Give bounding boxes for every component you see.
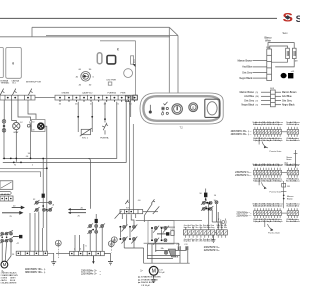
panel icon star circle [161, 107, 165, 111]
bus 263 [144, 262, 190, 264]
svg-text:M: M [3, 262, 7, 267]
svg-text:Wht: Wht [224, 226, 228, 229]
pressure switch body [0, 181, 13, 190]
connector F02 [267, 49, 272, 81]
wire panel to J6 [128, 102, 130, 210]
contact KC4 [209, 207, 212, 210]
puerta gate arrow X2 [259, 178, 265, 188]
svg-text:NTC 1: NTC 1 [82, 138, 89, 140]
svg-text:Brown: Brown [278, 123, 283, 126]
relay coil KC dark [204, 193, 207, 198]
big slash right of NT [153, 206, 160, 214]
board outline right edge [135, 41, 137, 95]
strip2 riser column [295, 150, 297, 168]
svg-text:Gris Grey: Gris Grey [242, 71, 253, 74]
svg-text:Blk: Blk [192, 227, 195, 229]
extra center horizontals [147, 256, 180, 259]
earth circle right [108, 241, 114, 247]
wire lamp1 drop [3, 100, 5, 120]
labels 2 4 6 [74, 246, 88, 251]
F03 wires right [275, 91, 281, 93]
wire pin24 stub [130, 102, 132, 117]
contact KL5 [95, 230, 98, 233]
heater resistors R1 R2 [268, 43, 296, 67]
panel knob big [172, 104, 182, 114]
svg-text:Brn: Brn [196, 240, 199, 243]
puerta gate arrow X1 [259, 137, 268, 148]
connector strip J5b [70, 251, 105, 255]
wire motor ground [153, 276, 155, 280]
F03 labels right [282, 91, 297, 107]
svg-text:Blanco: Blanco [295, 221, 300, 223]
svg-text:Negro Black: Negro Black [282, 104, 295, 107]
earth circle center [111, 237, 117, 243]
connector strip J1 left segment [0, 95, 35, 100]
board outline top edge [100, 40, 136, 42]
svg-text:LED PWR: LED PWR [107, 79, 117, 81]
F02 wire labels [238, 59, 253, 80]
wire top bus L1 [0, 17, 277, 19]
down arrow under strip2L [92, 256, 94, 262]
contact KC1 [202, 201, 205, 204]
connector strip J6 [120, 210, 143, 214]
dial center dot [83, 75, 86, 78]
wire panel stub [132, 124, 134, 210]
legend color codes left [1, 272, 19, 285]
door lock actuator [272, 75, 281, 77]
svg-text:(M): (M) [256, 96, 259, 98]
svg-text:PWR: PWR [121, 92, 126, 94]
XC ticks and labels [185, 227, 225, 238]
svg-text:(5): (5) [256, 92, 259, 94]
aux box C1 [171, 231, 174, 236]
svg-text:PUERTA: PUERTA [100, 137, 109, 140]
board strip header labels [62, 91, 126, 94]
svg-text:▶ 49 AZUL BLUE: ▶ 49 AZUL BLUE [139, 281, 155, 284]
svg-text:White: White [295, 204, 299, 207]
svg-text:Blk: Blk [217, 227, 220, 229]
component flag right edge [132, 64, 135, 67]
connector strip X2 [254, 170, 299, 175]
arrow latch 47 [13, 236, 19, 238]
motor M1 [1, 261, 8, 268]
contact KP2 [49, 201, 52, 204]
svg-text:b1 b2 10: b1 b2 10 [1, 194, 10, 196]
svg-text:Marron Brown: Marron Brown [282, 91, 297, 94]
arrow 25b [71, 212, 87, 214]
junction dot NTC right [91, 116, 93, 118]
wire L2 corner diagonal [169, 27, 178, 35]
svg-text:GPW: GPW [13, 132, 18, 134]
wire door switch drop [104, 102, 106, 123]
control panel T.2 outer [140, 93, 223, 124]
svg-text:Brn: Brn [196, 226, 199, 229]
ground symbol left [51, 262, 56, 265]
svg-text:INTERRUPTOR: INTERRUPTOR [26, 82, 41, 84]
wire lampbox right riser [45, 126, 47, 159]
contact KC2 [209, 201, 212, 204]
connector strip J2 right segment [55, 95, 137, 100]
switch S2 slash [12, 89, 15, 95]
relay cluster center right box [148, 221, 174, 244]
control panel inner bezel [143, 96, 219, 121]
panel display window [205, 99, 220, 117]
LED square [108, 82, 112, 85]
switch S3 slash [28, 89, 31, 95]
pressure connector b1 b2 10 [0, 196, 13, 201]
lamp box enclosure [32, 120, 46, 132]
wire bus drop x90 [88, 158, 90, 208]
svg-text:Brown: Brown [278, 164, 283, 167]
wires cluster to XC [205, 197, 207, 201]
wire lampbox drop [28, 100, 36, 119]
motor relay contact row 1 [1, 232, 4, 235]
wire lamp2 drop [12, 100, 17, 122]
svg-text:ORDEN: ORDEN [62, 92, 70, 94]
connector F01 small rect [131, 56, 134, 64]
capacitor C1 plates [178, 246, 188, 250]
svg-text:Negro: Negro [278, 180, 283, 183]
svg-text:C.8 16 µF: C.8 16 µF [141, 285, 151, 287]
wire L2 riser [31, 27, 33, 37]
junction dot door [104, 118, 106, 120]
legend center [139, 276, 162, 287]
panel connector box [125, 96, 130, 102]
connector F03 [271, 90, 276, 107]
connector strip XC [183, 230, 227, 235]
relay K2 rect thermostat [6, 48, 21, 79]
svg-text:White: White [295, 123, 299, 126]
arrow 20 [2, 206, 24, 214]
thermostat contact S4 [27, 124, 30, 127]
svg-text:230V/50Hz 3~: 230V/50Hz 3~ [235, 172, 250, 174]
NT box right wire [143, 211, 158, 213]
svg-text:Puerta Gate: Puerta Gate [268, 232, 281, 235]
svg-text:White: White [265, 39, 272, 42]
motor relay contact row 2 [1, 239, 4, 242]
svg-text:TERMAC: TERMAC [1, 82, 10, 85]
wire strip to ground [48, 253, 54, 261]
wire strip2L right to ground [104, 254, 110, 262]
contact KL2 [95, 225, 98, 228]
svg-text:Blanco: Blanco [295, 181, 300, 183]
svg-text:16 µF: 16 µF [159, 272, 165, 274]
pentagon flag KB [168, 249, 175, 257]
strip J2 end cell [133, 95, 137, 100]
svg-text:(7): (7) [256, 100, 259, 102]
strip J2 pin ticks [60, 100, 135, 102]
svg-text:Serv.: Serv. [283, 32, 289, 35]
pressure switch enclosure [0, 172, 41, 177]
svg-text:0: 0 [192, 106, 194, 110]
NTC R1 box [81, 129, 90, 134]
wire strip2L left [56, 253, 70, 255]
F03 wires left [261, 92, 281, 105]
svg-text:S: S [296, 14, 300, 25]
svg-text:Blk: Blk [192, 241, 195, 243]
svg-text:(5): (5) [256, 105, 259, 107]
svg-text:Blanco: Blanco [295, 140, 300, 142]
wire coil top [205, 189, 207, 193]
svg-text:Negro Black: Negro Black [239, 77, 252, 80]
contact KP4 [43, 208, 46, 211]
motor M2 [149, 266, 158, 275]
svg-text:Blue: Blue [188, 241, 191, 243]
contact KP5 [49, 208, 52, 211]
svg-text:Gris Grey: Gris Grey [244, 99, 255, 102]
wire y168 [0, 167, 47, 169]
wire L4 drop to panel [177, 36, 179, 93]
strip J2 pin numbers [59, 103, 133, 105]
switch S1 slash [0, 89, 32, 95]
puerta gate arrow X3 [265, 218, 273, 230]
KC cluster extras [215, 201, 218, 204]
junction dots cluster [1, 236, 3, 238]
svg-text:Puerta Gate: Puerta Gate [270, 191, 283, 194]
wire vert 43 [42, 159, 44, 194]
arrow 20b [71, 208, 87, 210]
wire diagonal J6 [144, 204, 152, 216]
logo S red swoosh [283, 13, 302, 35]
svg-text:Azul Blue: Azul Blue [282, 95, 292, 98]
svg-text:Grey: Grey [211, 226, 215, 229]
wire switch to bus [30, 126, 32, 159]
svg-text:Brown: Brown [287, 158, 292, 161]
earth circle symbol [55, 240, 61, 246]
pilot lamp H2 [13, 122, 20, 129]
wire switch drop [18, 100, 31, 121]
wire row 250.4 [155, 249, 186, 251]
capacitor C8 plates [185, 246, 187, 250]
wires J6 strip down [122, 214, 144, 226]
wire earth dashed [57, 246, 59, 258]
wire bus 1 lower [3, 100, 126, 162]
lamp H3 dark [38, 123, 44, 129]
switch J6a slash [125, 199, 155, 204]
svg-text:Azul Blue: Azul Blue [244, 95, 254, 98]
svg-text:Marron Brown: Marron Brown [240, 91, 255, 94]
svg-text:230V/60Hz ~: 230V/60Hz ~ [236, 215, 250, 217]
svg-text:▶ 45 MARRON BROWN: ▶ 45 MARRON BROWN [139, 276, 162, 279]
panel icon thermometer [149, 102, 168, 115]
connector strip J5 [16, 251, 47, 255]
F02 left wires [253, 61, 267, 79]
switch J6b slash [151, 199, 154, 203]
arrow latch center [157, 233, 166, 235]
svg-text:Brown: Brown [287, 198, 293, 200]
strip J1 pin dots [7, 97, 29, 99]
F03 labels left [240, 91, 255, 107]
door sensor glyph [218, 219, 226, 226]
wire lamp1 to bus [3, 123, 5, 159]
wire L4 horizontal pair [46, 35, 178, 37]
svg-text:M: M [152, 269, 156, 275]
svg-text:Red: Red [203, 241, 206, 243]
wire row 220.7 [136, 220, 202, 222]
ground under XC [212, 235, 216, 242]
wires cluster to motor bus [124, 241, 190, 264]
buzzer circle [124, 69, 133, 78]
wire NTC right drop [91, 102, 93, 132]
junction dots bus [10, 158, 12, 160]
svg-text:230V/60Hz 3~: 230V/60Hz 3~ [235, 175, 250, 177]
panel knob small [189, 103, 198, 112]
contact KC3 [202, 207, 205, 210]
wire vert 46.8 long [46, 159, 48, 251]
svg-text:WHITE: WHITE [10, 283, 17, 285]
contact KP1 [35, 201, 38, 204]
contact KL3 [101, 225, 104, 228]
svg-text:PUERTA: PUERTA [108, 91, 117, 94]
svg-text:220V/60Hz 3~: 220V/60Hz 3~ [204, 249, 220, 252]
wires into motor block [29, 213, 31, 251]
wire row 227 [160, 226, 175, 228]
svg-text:1~: 1~ [140, 268, 143, 272]
wire L3 horizontal [0, 36, 170, 38]
junction dot NTC left [77, 116, 79, 118]
door switch B1 [103, 123, 107, 130]
svg-text:220V/60Hz 3~: 220V/60Hz 3~ [81, 273, 97, 276]
svg-text:Blue: Blue [285, 165, 288, 167]
wire L2 drop to panel [168, 27, 170, 92]
relay K rounded square [107, 56, 116, 64]
big slash left of NT [115, 211, 122, 219]
svg-text:Marron Brown: Marron Brown [238, 59, 253, 62]
wire NTC left drop [77, 102, 79, 132]
wire row 243 [144, 242, 179, 244]
relay cluster center left group [120, 225, 137, 244]
contact center [164, 251, 167, 254]
wire bus N upper [3, 102, 117, 159]
strip J2 pin dots [59, 97, 135, 99]
pressure membrane shape [0, 192, 11, 195]
relay coil KL dark [95, 219, 98, 223]
svg-text:Blue: Blue [188, 227, 191, 229]
wire L2 horizontal [32, 26, 169, 28]
svg-text:Negro: Negro [278, 139, 283, 142]
contact KL1 [89, 225, 92, 228]
svg-text:Negro Black: Negro Black [241, 104, 254, 107]
wire strip link [35, 97, 55, 99]
wires cluster to motor [1, 242, 3, 262]
indicator lamp small H1a [2, 120, 6, 124]
svg-text:230V/50Hz ~: 230V/50Hz ~ [236, 212, 250, 214]
svg-text:Puerta Gate: Puerta Gate [270, 150, 283, 153]
board footer labels [1, 80, 42, 85]
arrow 25 [2, 212, 20, 214]
svg-text:Gris Grey: Gris Grey [282, 99, 293, 102]
svg-text:Blanco: Blanco [264, 38, 272, 40]
connector strip X3 [254, 211, 299, 216]
svg-text:▶ 47 NEGRO BLACK: ▶ 47 NEGRO BLACK [139, 278, 159, 281]
F03 pin codes [256, 92, 259, 107]
wires cluster to strip2L [89, 233, 91, 251]
XC labels above [183, 224, 227, 229]
dial tick labels [76, 69, 95, 86]
capacitor C pill [97, 53, 102, 64]
indicator lamp small H1b [2, 129, 6, 133]
svg-text:Azul Blue: Azul Blue [242, 66, 252, 69]
wire lamp2 to bus [15, 130, 17, 162]
selector dial circle [81, 72, 91, 82]
interlock chain between X2 X3 [281, 181, 286, 208]
svg-text:Red: Red [203, 227, 206, 229]
svg-text:380V/60Hz 3N~ ⏚: 380V/60Hz 3N~ ⏚ [25, 270, 46, 274]
contact KP3 [35, 208, 38, 211]
svg-text:Brn: Brn [220, 226, 223, 229]
svg-text:CALEF B.2: CALEF B.2 [82, 91, 93, 94]
relay K1 rect [0, 48, 3, 78]
svg-text:Brown: Brown [278, 204, 283, 207]
relay coil KP dark [42, 194, 45, 198]
connector strip X1 [254, 130, 299, 135]
XC cell marks [184, 231, 226, 234]
panel icon droplet circle [162, 112, 164, 115]
second pressure section [71, 158, 91, 212]
svg-text:Negro: Negro [278, 220, 283, 223]
panel icon check [164, 102, 168, 105]
contact KL4 [89, 230, 92, 233]
